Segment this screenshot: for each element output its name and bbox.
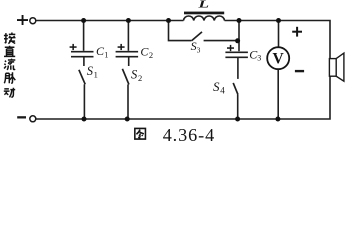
- svg-text:S4: S4: [213, 79, 225, 96]
- svg-text:C1: C1: [96, 44, 108, 59]
- svg-text:S3: S3: [191, 39, 201, 55]
- svg-text:C2: C2: [140, 45, 153, 60]
- svg-text:S2: S2: [131, 67, 142, 83]
- svg-text:L: L: [197, 0, 209, 11]
- svg-text:S1: S1: [87, 64, 98, 80]
- svg-text:4.36-4: 4.36-4: [163, 125, 215, 145]
- svg-text:C3: C3: [249, 48, 261, 63]
- svg-text:V: V: [273, 50, 285, 67]
